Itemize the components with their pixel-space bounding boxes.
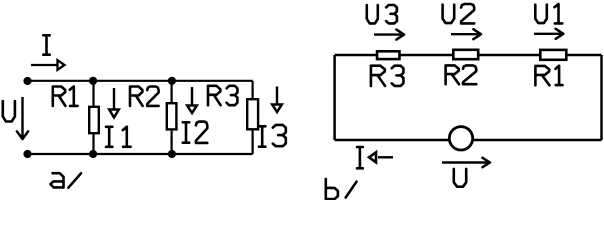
node: left input terminal top (dot) [23,77,31,85]
label U1 [535,4,562,23]
label R2 (circuit b) [446,65,477,84]
wire: branch 2 vertical [171,81,173,154]
node: junction branch 2 bottom (dot) [168,150,176,158]
arrow: current I3 (down) [272,87,282,113]
label U3 [367,5,397,23]
wire: circuit a bottom rail [28,153,253,155]
wire: circuit a top rail [28,80,253,82]
label b/ (subfigure b) [326,179,357,199]
node: left input terminal bottom (dot) [23,150,31,158]
arrow: current I (left, circuit b) [369,152,393,162]
resistor R2 (circuit b) [453,50,478,59]
resistor R2 (circuit a) [167,103,177,129]
node: junction branch 1 top (dot) [89,77,97,85]
resistor R1 (circuit a) [89,107,99,133]
label R1 (circuit b) [535,66,562,86]
wire: circuit b left side [333,55,336,140]
label R3 (circuit a) [208,86,237,105]
arrow: voltage U2 (right) [451,29,481,39]
label I3 [259,125,286,147]
label U (source voltage, circuit b) [454,169,466,187]
label R1 (circuit a) [53,87,78,106]
wire: branch 1 vertical [92,81,94,154]
label I (loop current, circuit b) [357,147,363,168]
label I2 [183,122,208,143]
arrow: voltage U direction (right, below source) [442,158,490,167]
label R2 (circuit a) [130,87,159,106]
label a/ (subfigure a) [50,173,81,188]
arrow: voltage U3 (right) [374,30,404,40]
resistor R3 (circuit a) [247,99,258,129]
wire: circuit b bottom side [335,139,602,142]
resistor R1 (circuit b) [540,50,566,60]
node: junction branch 2 top (dot) [168,77,176,85]
node: junction branch 1 bottom (dot) [89,150,97,158]
arrow: current I1 (down) [109,88,119,118]
label U (source voltage, circuit a) [3,101,15,121]
arrow: voltage U1 (right) [534,29,563,39]
wire: circuit b top side [335,54,602,57]
label R3 (circuit b) [371,66,404,86]
wire: branch 3 vertical (right end) [252,81,254,154]
resistor R3 (circuit b) [377,51,399,59]
wire: circuit b right side [600,55,603,140]
label I (total current, circuit a) [43,35,49,54]
arrow: current I2 (down) [187,87,197,113]
arrow: voltage U direction (down) [17,97,28,139]
voltage source U (circle, circuit b) [449,127,472,150]
label U2 [443,4,475,23]
arrow: current I direction (right) [31,60,65,70]
label I1 [106,127,131,147]
